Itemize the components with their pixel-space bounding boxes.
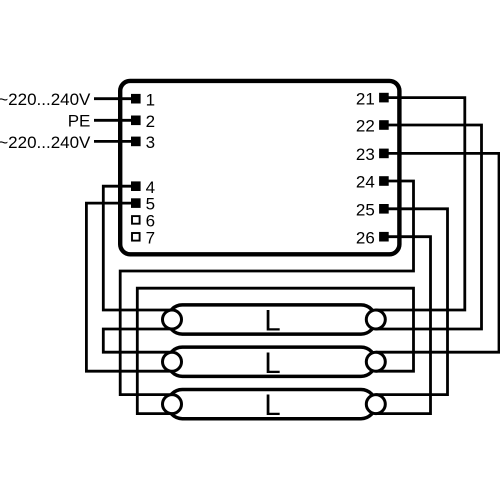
svg-text:PE: PE xyxy=(68,112,91,131)
svg-text:L: L xyxy=(264,389,280,422)
svg-text:21: 21 xyxy=(356,89,375,108)
svg-text:24: 24 xyxy=(356,173,375,192)
svg-text:25: 25 xyxy=(356,201,375,220)
svg-text:L: L xyxy=(264,347,280,380)
svg-text:2: 2 xyxy=(146,112,155,131)
svg-text:~220...240V: ~220...240V xyxy=(0,90,91,109)
svg-text:L: L xyxy=(264,305,280,338)
svg-text:3: 3 xyxy=(146,133,155,152)
svg-text:7: 7 xyxy=(146,228,155,247)
svg-text:~220...240V: ~220...240V xyxy=(0,133,91,152)
svg-text:23: 23 xyxy=(356,145,375,164)
svg-text:1: 1 xyxy=(146,90,155,109)
svg-text:26: 26 xyxy=(356,228,375,247)
svg-text:22: 22 xyxy=(356,117,375,136)
